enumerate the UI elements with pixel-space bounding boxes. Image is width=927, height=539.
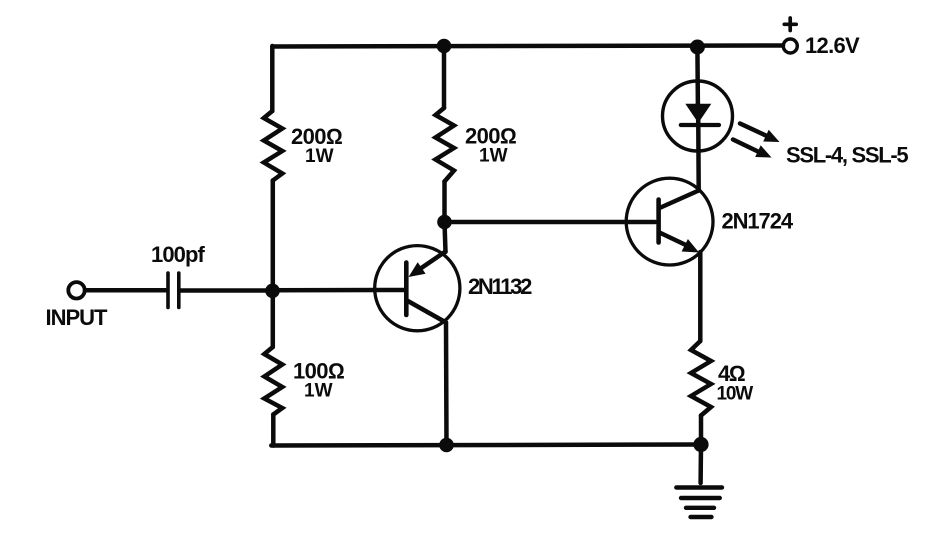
wire mid node to Q1 emitter [445, 222, 446, 252]
wire capacitor to input node [181, 288, 272, 293]
svg-text:1W: 1W [305, 146, 334, 167]
wire left branch upper [270, 46, 275, 111]
svg-text:12.6V: 12.6V [805, 33, 860, 58]
capacitor C1 100pf [168, 273, 179, 308]
wire R3 to mid node [442, 182, 447, 223]
resistor R1 200ohm [264, 111, 283, 181]
resistor R4 4ohm [691, 341, 711, 416]
svg-text:1W: 1W [479, 146, 508, 167]
wire input to capacitor [85, 288, 166, 293]
svg-text:100pf: 100pf [151, 242, 206, 267]
LED light emission arrows [733, 124, 780, 158]
wire ground stub [698, 445, 703, 484]
label + (plus sign) [784, 18, 796, 31]
wire left branch middle [271, 181, 276, 348]
resistor R2 100ohm [264, 347, 282, 415]
svg-text:2N1132: 2N1132 [468, 274, 532, 299]
wire bottom rail [271, 445, 701, 446]
node mid junction [437, 215, 452, 230]
wire LED cathode to Q2 collector [696, 126, 701, 191]
junction top-left node [437, 39, 452, 54]
wire mid node to Q2 base [445, 220, 656, 225]
wire top rail [272, 46, 783, 47]
LED DS1 [663, 81, 733, 151]
node bottom junction [439, 438, 454, 453]
node ground junction [693, 437, 708, 452]
terminal +12.6V [783, 39, 797, 53]
svg-text:INPUT: INPUT [46, 305, 109, 330]
wire second branch upper [442, 46, 447, 108]
wire V+ to LED anode [695, 47, 700, 105]
terminal INPUT [68, 282, 84, 298]
wire Q2 emitter down [698, 252, 703, 341]
wire base of Q1 [273, 288, 405, 293]
svg-text:4Ω: 4Ω [718, 361, 745, 386]
wire R4 to ground node [699, 416, 704, 445]
svg-text:SSL-4, SSL-5: SSL-4, SSL-5 [786, 143, 908, 168]
wire Q1 collector down [444, 323, 449, 446]
ground symbol [676, 488, 722, 518]
node input junction [265, 284, 280, 299]
svg-text:2N1724: 2N1724 [722, 209, 794, 234]
transistor Q1 2N1132 [375, 246, 460, 331]
resistor R3 200ohm [436, 108, 455, 182]
transistor Q2 2N1724 [626, 178, 713, 265]
wire left branch lower [271, 415, 276, 446]
svg-text:1W: 1W [304, 381, 333, 402]
junction top-right node [690, 40, 705, 55]
svg-text:10W: 10W [717, 384, 754, 405]
